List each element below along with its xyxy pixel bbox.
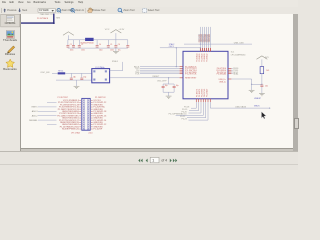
wire bottom pin 6 horizontal: [189, 119, 209, 121]
net label marks top wire 6: [208, 33, 209, 36]
wire VCC A stem: [67, 35, 69, 40]
connector JP1 body: [82, 98, 90, 130]
ground symbol right chain: [259, 93, 265, 95]
svg-text:USB_D+: USB_D+: [219, 79, 227, 81]
junction row1: [176, 66, 177, 67]
svg-text:C6: C6: [118, 44, 120, 46]
wire top pin 5: [207, 27, 209, 48]
svg-text:10p: 10p: [176, 85, 179, 87]
browse hand icon: [88, 7, 93, 12]
pin number left row 2: [80, 102, 81, 104]
pin number right row 7: [91, 113, 92, 115]
pin stub top 4: [205, 48, 207, 51]
svg-text:P0.23: P0.23: [182, 118, 188, 120]
pin number right row 3: [91, 104, 92, 106]
wire top rail small caps: [163, 83, 174, 85]
svg-text:USBUP: USBUP: [254, 98, 262, 100]
pin stub right RXD1: [228, 67, 231, 69]
wire TDI to U1: [140, 69, 180, 71]
pin number right row 6: [91, 110, 92, 112]
svg-text:18p: 18p: [73, 77, 76, 79]
wire top pin 6: [209, 27, 211, 48]
capacitor C7: [70, 73, 72, 77]
pin number left row 12: [80, 124, 81, 126]
junction branch right: [261, 84, 262, 85]
last page btn: [173, 159, 175, 163]
wire bottom pin 2 vertical: [198, 102, 200, 111]
svg-text:P0.29/AD2: P0.29/AD2: [206, 53, 209, 62]
pin number left row 1: [80, 99, 81, 101]
wire top pin 1: [199, 27, 201, 48]
svg-text:10p: 10p: [165, 85, 168, 87]
capacitor C at x=127.8: [127, 40, 129, 46]
wire right USB vertical: [251, 79, 253, 90]
connector JP1 pin row 1: [83, 99, 85, 101]
menu bar: [0, 0, 298, 7]
wire bottom pin 6 vertical: [207, 102, 209, 120]
wire connector row 6: [38, 110, 57, 112]
pin number right row 13: [91, 126, 92, 128]
svg-text:VBUS: VBUS: [254, 106, 260, 108]
pin number right row 4: [91, 106, 92, 108]
ferrite bead L1: [85, 38, 94, 41]
svg-text:P0.3/SDA0: P0.3/SDA0: [217, 73, 226, 76]
capacitor C at x=73.5: [73, 40, 75, 46]
wire oscillator output: [110, 70, 123, 72]
svg-text:C4: C4: [99, 44, 101, 46]
pin number right row 10: [91, 119, 92, 121]
svg-text:AD0.2: AD0.2: [32, 114, 39, 117]
pin stub left TDO: [180, 67, 183, 69]
pin stub bottom 4: [202, 99, 204, 102]
wire W2 USB connect: [184, 43, 252, 45]
pin stub bottom 3: [200, 99, 202, 102]
svg-text:P1.26/RTCK: P1.26/RTCK: [95, 97, 106, 99]
wire bottom pin 2 horizontal: [189, 110, 199, 112]
pin stub bottom 5: [205, 99, 207, 102]
pin stub top 6: [209, 48, 211, 51]
pin stub top 3: [203, 48, 205, 51]
wire stem from RESET wire: [168, 78, 170, 84]
power flag VCC right chain: [257, 56, 268, 59]
connector JP1 pin row 3: [83, 104, 85, 106]
capacitor C13: [173, 84, 175, 86]
pin number left row 11: [80, 121, 81, 123]
prev page btn: [146, 159, 148, 163]
wire top pin 4: [205, 27, 207, 48]
pin number right row 14: [91, 128, 92, 130]
pin number right row 5: [91, 108, 92, 110]
pin stub bottom 6: [207, 99, 209, 102]
capacitor C at x=79.3: [78, 40, 80, 46]
pin number right row 9: [91, 117, 92, 119]
sidebar: [20, 14, 21, 151]
wire W1: [160, 47, 201, 49]
svg-text:100n: 100n: [70, 49, 74, 51]
net label marks top wire 1: [198, 33, 199, 36]
pin stub left TCK: [180, 73, 183, 75]
svg-text:P0.22/AD7: P0.22/AD7: [206, 88, 209, 97]
svg-text:100n: 100n: [81, 49, 85, 51]
pin stub top 1: [199, 48, 201, 51]
svg-text:10u: 10u: [118, 49, 121, 51]
ground symbol right mid: [249, 89, 255, 91]
select tool icon: [143, 8, 147, 12]
wire RTCK to U1: [140, 66, 180, 68]
wire bottom pin 3 horizontal: [189, 112, 202, 114]
connector JP1 pin row 10: [83, 119, 85, 121]
scrollbar: [293, 14, 298, 151]
wire right RXD1: [231, 67, 232, 69]
svg-text:AD0.3: AD0.3: [32, 110, 39, 113]
pin stub RESET: [180, 77, 183, 79]
wire right USB horizontal: [231, 78, 251, 80]
svg-text:P1.20/TRACE: P1.20/TRACE: [37, 17, 49, 20]
wire right SDA1: [231, 73, 232, 75]
pin stub bottom 2: [198, 99, 200, 102]
wire oscillator output vertical: [122, 62, 124, 71]
wire connector row 4: [38, 106, 57, 108]
wire bottom pin 5 vertical: [205, 102, 207, 118]
wire connector row 10: [38, 119, 57, 121]
power flag VCC arrow A: [63, 32, 74, 35]
svg-text:IC1: IC1: [231, 51, 235, 53]
svg-text:USB_D-: USB_D-: [219, 82, 226, 84]
wire bottom pin 5 horizontal: [187, 117, 206, 119]
svg-text:XTAL1: XTAL1: [112, 60, 119, 63]
thumbnails icon: [6, 31, 14, 39]
wire bottom rail: [68, 47, 128, 49]
connector JP1 pin row 13: [83, 126, 85, 128]
svg-text:C5: C5: [110, 44, 112, 46]
connector JP1 pin row 4: [83, 106, 85, 108]
pin stub right SDA1: [228, 73, 231, 75]
pin stub right SCL1: [228, 71, 231, 73]
wire right TXD1: [231, 69, 232, 71]
wire VCC B stem: [115, 33, 117, 40]
connector JP1 pin row 14: [83, 128, 85, 130]
contents tab (pressed): [1, 14, 20, 27]
capacitor C at x=108.3: [107, 40, 109, 46]
capacitor C at x=67.9: [67, 40, 69, 46]
pin number right row 12: [91, 124, 92, 126]
capacitor C9: [260, 84, 263, 87]
pin number left row 6: [80, 110, 81, 112]
wire connector row 12: [47, 124, 57, 126]
svg-text:3V3: 3V3: [265, 57, 269, 59]
wire top pin 2: [201, 27, 203, 48]
wire ground stem cap bank: [115, 48, 117, 51]
pin number left row 9: [80, 117, 81, 119]
wire C9 to ground: [261, 87, 263, 94]
next page btn: [170, 159, 172, 163]
pin number right row 2: [91, 102, 92, 104]
wire branch to RC chain: [252, 83, 262, 85]
pin number right row 1: [91, 99, 92, 101]
pin stub top 5: [207, 48, 209, 51]
capacitor C8: [81, 73, 83, 77]
svg-text:18p: 18p: [83, 77, 86, 79]
svg-text:P1.31/TRST: P1.31/TRST: [58, 97, 69, 99]
pin stub left TDI: [180, 69, 183, 71]
connector JP1 pin row 6: [83, 110, 85, 112]
svg-text:C1: C1: [70, 44, 72, 46]
pin stub bottom 1: [195, 99, 197, 102]
svg-text:NC/KEYPIN/NC20: NC/KEYPIN/NC20: [62, 129, 80, 131]
svg-text:R9 1k: R9 1k: [58, 70, 63, 72]
white document page: [21, 14, 293, 148]
wire vertical to W1: [175, 48, 177, 67]
pin number right row 8: [91, 115, 92, 117]
wire bottom pin 1 horizontal: [191, 107, 196, 109]
pin stub top 2: [201, 48, 203, 51]
svg-text:100n: 100n: [110, 49, 114, 51]
wire connector row 2: [47, 102, 57, 104]
wire right SCL1: [231, 71, 232, 73]
toolbar: [0, 7, 298, 15]
mouse cursor: [261, 112, 266, 119]
wire label to resistor: [52, 72, 58, 74]
svg-text:IO: IO: [51, 14, 54, 16]
connector JP1 pin row 9: [83, 117, 85, 119]
capacitor C at x=115.9: [115, 40, 117, 46]
connector JP1 pin row 2: [83, 102, 85, 104]
wire VBUS horizontal: [210, 107, 269, 109]
pin stub left TMS: [180, 71, 183, 73]
svg-text:P1.10/GP: P1.10/GP: [93, 129, 103, 131]
junction branch left: [251, 84, 252, 85]
ground symbol cap bank: [113, 50, 119, 52]
svg-text:100n: 100n: [99, 49, 103, 51]
pin number left row 5: [80, 108, 81, 110]
wire bottom pin 4 vertical: [202, 102, 204, 115]
capacitor C at x=97.1: [96, 40, 98, 46]
capacitor C12: [162, 84, 164, 86]
page box: [150, 157, 159, 162]
junction W2: [200, 43, 201, 44]
bus JTAG horizontal segment: [21, 22, 54, 24]
combo: [38, 8, 56, 12]
schematic svg overlays whole window: [0, 0, 298, 169]
first page btn: [138, 159, 140, 163]
zoom tool icon: [118, 8, 122, 12]
svg-text:10n: 10n: [265, 86, 268, 88]
pin number left row 14: [80, 128, 81, 130]
junction W1 right: [200, 47, 201, 48]
handle: [1, 8, 2, 13]
svg-text:RESET: RESET: [153, 76, 160, 78]
wire bottom pin 4 horizontal: [176, 114, 204, 116]
separator: [84, 8, 87, 13]
pin number left row 10: [80, 119, 81, 121]
svg-text:TCK: TCK: [135, 74, 140, 76]
svg-text:JP1 JTAG: JP1 JTAG: [71, 132, 80, 135]
wire VBUS vertical: [209, 102, 211, 108]
wire gnd stem crystal caps: [76, 80, 78, 86]
svg-text:2x10: 2x10: [88, 132, 92, 134]
bus corner junction: [53, 22, 55, 24]
junction VBUS end: [269, 107, 270, 108]
connector JP1 pin row 11: [83, 121, 85, 123]
wire crystal cap rail long: [56, 79, 92, 81]
svg-text:TMS: TMS: [56, 17, 61, 19]
wire RESET long: [110, 77, 180, 79]
wire connector row 8: [38, 115, 57, 117]
pin number right row 11: [91, 121, 92, 123]
pin stub USB VBUS: [209, 99, 211, 102]
bottom bar: [0, 151, 298, 170]
junction W1 top: [176, 47, 177, 48]
wire VCC to R10: [261, 59, 263, 66]
connector JP1 pin row 5: [83, 108, 85, 110]
reviews pencil icon: [7, 46, 14, 53]
pin number left row 4: [80, 106, 81, 108]
oscillator Q1 box: [92, 69, 110, 83]
ground symbol small caps: [166, 95, 172, 97]
wire top rail right: [94, 39, 128, 41]
bookmarks star icon: [6, 59, 15, 67]
zoom in icon: [71, 8, 74, 11]
svg-text:OSC1: OSC1: [169, 46, 174, 48]
svg-text:+3.3V: +3.3V: [118, 29, 124, 31]
svg-text:LPC2148FBD64: LPC2148FBD64: [231, 55, 246, 57]
wire top rail left: [68, 39, 85, 41]
power flag VCC arrow B: [111, 30, 122, 33]
wire bottom rail small caps: [163, 91, 174, 93]
bus JTAG vertical segment: [53, 14, 55, 24]
net label marks top wire 5: [206, 33, 207, 36]
svg-text:EINT1: EINT1: [32, 107, 39, 109]
wire TMS to U1: [140, 71, 180, 73]
svg-text:DBGSEL: DBGSEL: [29, 120, 38, 122]
pin number left row 3: [80, 104, 81, 106]
junction stem: [168, 77, 169, 78]
wire gnd stem small caps: [168, 92, 170, 96]
wire TCK to U1: [140, 73, 180, 75]
pin number left row 13: [80, 126, 81, 128]
pin number left row 8: [80, 115, 81, 117]
svg-text:VCC: VCC: [105, 29, 110, 31]
net label marks top wire 4: [204, 33, 205, 36]
wire bottom pin 3 vertical: [200, 102, 202, 113]
svg-text:SDA1: SDA1: [233, 73, 239, 76]
IC U1 LPC2148 body: [183, 51, 228, 99]
svg-text:OSC_BYP: OSC_BYP: [157, 80, 167, 82]
svg-text:USB_VBUS: USB_VBUS: [235, 106, 246, 108]
wire bottom pin 1 vertical: [195, 102, 197, 108]
connector JP1 pin row 8: [83, 115, 85, 117]
wire resistor to oscillator: [65, 72, 92, 74]
svg-text:P1.29/TCK: P1.29/TCK: [185, 74, 197, 76]
wire TDO to U1: [140, 67, 180, 69]
oscillator pin marks: [93, 70, 95, 72]
connector JP1 pin row 7: [83, 113, 85, 115]
pin stub left RTCK: [180, 66, 183, 68]
wire top pin 3: [203, 27, 205, 48]
pin stub right TXD1: [228, 69, 231, 71]
wire R10 to C9: [261, 74, 263, 85]
svg-text:USB_CNX: USB_CNX: [234, 42, 244, 44]
svg-text:Q1 12MHz: Q1 12MHz: [95, 67, 105, 69]
net label marks top wire 3: [202, 33, 203, 36]
connector JP1 pin row 12: [83, 124, 85, 126]
svg-text:RESET/RST: RESET/RST: [185, 78, 197, 80]
ground symbol crystal caps: [74, 85, 80, 87]
svg-text:OSC_EN: OSC_EN: [40, 72, 49, 74]
svg-text:JTAG DBG: JTAG DBG: [40, 13, 50, 16]
svg-text:1k5: 1k5: [266, 70, 269, 72]
zoom out icon: [57, 8, 60, 11]
net label marks top wire 2: [200, 33, 201, 36]
next icon: [18, 8, 21, 12]
pin number left row 7: [80, 113, 81, 115]
svg-text:C2: C2: [81, 44, 83, 46]
pin stub right USB: [228, 78, 231, 80]
prev icon: [3, 8, 6, 12]
resistor R9: [58, 72, 65, 74]
resistor R10: [260, 67, 264, 74]
